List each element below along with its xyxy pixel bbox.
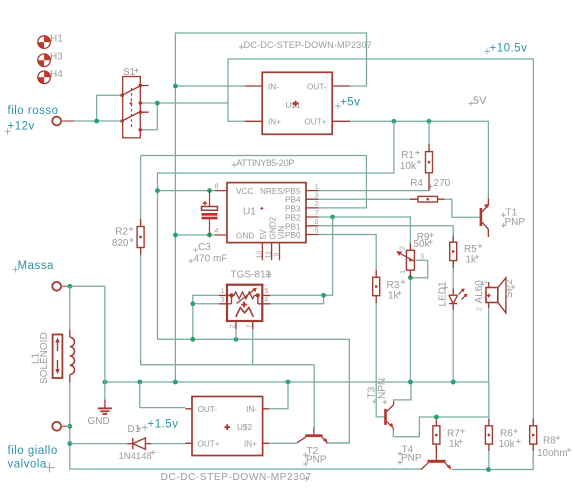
label D1: [128, 424, 142, 435]
svg-text:Massa: Massa: [18, 260, 54, 272]
svg-text:IN-: IN-: [268, 82, 279, 91]
solenoid L1: [31, 330, 75, 384]
wire R5 bottom to LED1: [452, 261, 454, 292]
microcontroller U1 ATTINY85: [215, 182, 319, 261]
pad Massa: [52, 282, 66, 291]
gas sensor TGS-813: [219, 285, 270, 329]
wire GND row pin4: [175, 234, 215, 236]
node switch output junction: [155, 101, 160, 106]
svg-text:3: 3: [221, 295, 225, 304]
wire LED1 cathode to GND bus: [452, 305, 454, 382]
svg-text:5V: 5V: [259, 229, 268, 240]
svg-text:4: 4: [264, 295, 268, 304]
svg-text:7: 7: [315, 208, 319, 217]
node VCC junction: [155, 188, 160, 193]
svg-text:U$2: U$2: [237, 423, 252, 432]
wire switch out2 loop: [142, 103, 158, 130]
node bottom right junction: [486, 467, 491, 472]
svg-text:R4: R4: [410, 178, 423, 189]
svg-text:+10.5v: +10.5v: [490, 42, 528, 54]
resistor R2: [112, 227, 144, 249]
svg-text:1N4148: 1N4148: [119, 451, 152, 462]
resistor R4: [410, 178, 451, 202]
svg-text:PB4: PB4: [285, 196, 301, 205]
wire TGS pin4 loop: [270, 295, 323, 304]
svg-text:OUT+: OUT+: [304, 118, 326, 127]
wire R6 bottom lead: [488, 444, 490, 469]
svg-text:T3: T3: [367, 386, 378, 398]
wire node to switch pole1: [97, 95, 122, 121]
svg-text:7: 7: [244, 325, 253, 329]
svg-text:OUT+: OUT+: [198, 440, 220, 449]
svg-text:8: 8: [215, 182, 219, 191]
svg-text:R8: R8: [543, 436, 556, 447]
svg-text:PB1: PB1: [285, 222, 301, 231]
wire TGS bottom left pin drop: [235, 329, 237, 339]
svg-text:IN+: IN+: [268, 118, 281, 127]
wire T3 emitter route to R7 top line and R6 top: [393, 417, 489, 437]
resistor R3: [373, 277, 400, 301]
resistor R5: [450, 242, 478, 265]
wire U$2 OUT- drop from GND bus: [140, 382, 186, 408]
svg-text:PB2: PB2: [285, 214, 301, 223]
node heater bus junction a: [190, 337, 195, 342]
svg-text:H1: H1: [50, 34, 63, 45]
svg-text:820: 820: [112, 238, 129, 249]
svg-text:OUT-: OUT-: [307, 82, 327, 91]
svg-text:U1: U1: [243, 207, 256, 218]
svg-text:PNP: PNP: [306, 454, 327, 465]
svg-text:2: 2: [398, 246, 407, 250]
node TGS pins 4/5 junction: [321, 293, 326, 298]
wire PB2 row to R9: [319, 217, 411, 250]
svg-text:IN-: IN-: [246, 405, 257, 414]
svg-text:filo rosso: filo rosso: [8, 105, 59, 117]
svg-text:270: 270: [434, 178, 451, 189]
pad filo giallo valvola: [52, 422, 66, 431]
svg-text:R2: R2: [115, 227, 128, 238]
label 1N4148: [119, 450, 156, 462]
potentiometer R9: [396, 232, 430, 274]
transistor T2: [297, 427, 328, 443]
label SP2 rotated: [474, 279, 515, 304]
dc-dc converter U$2: [185, 397, 269, 456]
net label valvola: [8, 459, 55, 473]
svg-text:+5v: +5v: [340, 97, 360, 109]
wire PB0 row to R3: [319, 235, 377, 278]
speaker SP2: [474, 278, 506, 313]
svg-text:GND2: GND2: [268, 216, 277, 239]
node TGS pin13 junction: [190, 301, 195, 306]
svg-text:1k: 1k: [449, 439, 461, 450]
node GND row left junction: [173, 233, 178, 238]
wire valve pad stub: [64, 425, 70, 427]
svg-text:2: 2: [228, 325, 237, 329]
svg-text:GND: GND: [236, 232, 254, 241]
svg-text:50k: 50k: [413, 239, 430, 250]
dc-dc converter U$1: [245, 72, 350, 134]
svg-text:1k: 1k: [388, 291, 400, 302]
wire D1 cathode to U$2 OUT+: [147, 443, 185, 445]
wire TGS pin5: [270, 294, 323, 296]
svg-text:OUT-: OUT-: [198, 405, 218, 414]
resistor R7: [433, 426, 461, 450]
resistor R8: [530, 426, 568, 459]
label T3 NPN rotated: [367, 378, 389, 399]
wire TGS bottom right pin drop: [252, 329, 254, 365]
wire GND bus: [105, 303, 489, 425]
wire NRES row to R1 bottom: [319, 173, 430, 191]
wire +5v row from OUT+ to T1 emitter riser: [350, 121, 488, 198]
svg-text:5: 5: [315, 226, 319, 235]
svg-text:3: 3: [315, 190, 319, 199]
label DC-DC top section name: [239, 40, 372, 50]
diode D1 1N4148: [133, 438, 146, 449]
label T4 PNP: [398, 444, 422, 465]
wire OUT- loop over box to GND rail V1: [175, 33, 366, 382]
wire R1 top lead: [428, 121, 430, 151]
svg-text:TGS-813: TGS-813: [231, 269, 272, 280]
wire solenoid bottom to valve pad and bottom run: [70, 383, 421, 470]
wire U$2 IN+ to T2 collector: [269, 442, 296, 444]
wire PB3 net: R2 top run: [141, 156, 367, 208]
svg-text:R6: R6: [500, 429, 513, 440]
node IN- junction: [173, 84, 178, 89]
transistor T3: [384, 402, 394, 431]
svg-text:H3: H3: [50, 52, 63, 63]
svg-text:+12v: +12v: [8, 121, 35, 133]
svg-text:10k: 10k: [400, 161, 417, 172]
label T2 PNP: [303, 446, 327, 467]
svg-text:ATTINY85-20P: ATTINY85-20P: [236, 158, 294, 168]
ground symbol GND: [88, 400, 112, 427]
svg-text:PB0: PB0: [285, 231, 301, 240]
wire R2 line down to T2 base line and TGS electrode: [141, 156, 315, 428]
svg-text:PB3: PB3: [285, 204, 301, 213]
wire Massa pad to GND symbol column: [64, 286, 105, 400]
hole H4: [37, 70, 51, 84]
wire TGS sense riser from pins 4/5 up to PB2: [324, 217, 333, 295]
hole H3: [37, 53, 51, 67]
wire bottom right: T4 emitter to R8 bottom: [452, 444, 533, 469]
wire U$2 IN- riser to GND bus: [269, 382, 288, 409]
wire R9 bottom to GND bus: [409, 270, 411, 382]
transistor T4: [421, 444, 452, 470]
svg-text:PNP: PNP: [505, 217, 526, 228]
node valve pad junction: [67, 424, 72, 429]
wire R9 wiper loop: [410, 260, 427, 278]
svg-text:1k: 1k: [466, 255, 478, 266]
svg-text:+1.5v: +1.5v: [148, 418, 179, 430]
svg-text:GND: GND: [88, 416, 110, 427]
node C3 top junction: [207, 188, 212, 193]
node GND bus junctions: [103, 380, 108, 385]
net label +5v: [335, 97, 360, 109]
svg-text:10: 10: [254, 251, 263, 259]
svg-text:5V: 5V: [473, 95, 487, 107]
svg-text:SOLENOID: SOLENOID: [39, 332, 50, 384]
wire R3 bottom to T3 base: [376, 296, 384, 417]
node C3 bottom junction: [207, 233, 212, 238]
wire +5v feed: down, left, down past VCC to heater bus and T2 emitter: [158, 121, 394, 443]
svg-text:H4: H4: [50, 69, 63, 80]
svg-text:C3: C3: [198, 242, 211, 253]
wire D1 anode run: [70, 443, 133, 445]
wire +10.5v net: IN+ riser, top run, right edge drop to R8: [228, 59, 533, 425]
net label +12v: [5, 121, 35, 135]
node heater bus junction b: [234, 337, 239, 342]
svg-text:AL60: AL60: [474, 280, 485, 304]
svg-text:3: 3: [420, 252, 424, 261]
svg-text:10ohm: 10ohm: [537, 448, 568, 459]
label DC-DC bottom section name: [161, 472, 312, 483]
node R9 bottom junction: [408, 275, 413, 280]
svg-text:R3: R3: [387, 280, 400, 291]
resistor R1: [400, 150, 433, 173]
hole H1: [37, 35, 51, 49]
wire PB1 row to R5 top: [319, 226, 454, 242]
svg-text:VCC: VCC: [236, 187, 253, 196]
wire PB4 row to R4: [319, 198, 419, 200]
svg-text:6: 6: [315, 217, 319, 226]
resistor R6: [485, 426, 515, 450]
net label +1.5v: [142, 418, 178, 430]
svg-text:VIN: VIN: [277, 226, 286, 240]
svg-text:R7: R7: [447, 429, 460, 440]
net label +10.5v: [484, 42, 527, 54]
wire IN- tap: [175, 85, 244, 87]
wire switch out1 to 12v rail: [142, 102, 229, 104]
net label Massa: [13, 260, 54, 273]
node PB2 junction: [330, 215, 335, 220]
svg-text:NPN: NPN: [377, 378, 388, 399]
wire T3 collector staircase to GND bus: [394, 382, 411, 402]
transistor T1: [480, 199, 490, 238]
svg-text:DC-DC-STEP-DOWN-MP2307: DC-DC-STEP-DOWN-MP2307: [244, 40, 372, 50]
svg-text:R5: R5: [464, 244, 477, 255]
wire T2 emitter run (short): [327, 442, 349, 444]
node R7 top junction: [434, 415, 439, 420]
red component lead stubs: [128, 144, 534, 452]
capacitor C3: [194, 191, 228, 265]
svg-text:4: 4: [215, 226, 219, 235]
svg-text:470 mF: 470 mF: [194, 253, 228, 264]
LED1: [438, 281, 468, 306]
svg-text:S1: S1: [123, 67, 136, 78]
svg-text:1: 1: [398, 270, 407, 274]
svg-text:LED1: LED1: [438, 281, 449, 306]
label origin crosses: [129, 68, 571, 452]
svg-text:DC-DC-STEP-DOWN-MP2307: DC-DC-STEP-DOWN-MP2307: [161, 472, 312, 483]
wire R4 to T1 base: [445, 199, 480, 217]
label T1 PNP: [501, 207, 525, 228]
svg-text:10k: 10k: [499, 439, 516, 450]
svg-text:IN+: IN+: [244, 440, 257, 449]
svg-text:PNP: PNP: [401, 453, 422, 464]
svg-text:2: 2: [315, 199, 319, 208]
svg-text:R1: R1: [401, 150, 414, 161]
svg-text:filo giallo: filo giallo: [8, 445, 58, 457]
svg-text:2: 2: [474, 307, 483, 311]
node switch input junction: [94, 119, 99, 124]
label 5V rail gray: [469, 95, 488, 107]
label TGS-813 name: [231, 269, 272, 280]
node D1 branch junction: [67, 441, 72, 446]
pad filo rosso +12v: [52, 117, 74, 126]
node +5v junction a: [392, 119, 397, 124]
wire +12v pad to switch node: [64, 120, 97, 122]
svg-text:U$1: U$1: [286, 101, 301, 110]
svg-text:9: 9: [272, 253, 281, 257]
switch S1: [120, 77, 148, 138]
wire node to switch pole2: [97, 120, 122, 122]
svg-text:NRES/PB5: NRES/PB5: [260, 187, 301, 196]
wire TGS pins 1,3 tie and drop to heater bus: [193, 295, 219, 339]
wire VCC row: [158, 190, 216, 192]
svg-text:valvola: valvola: [8, 459, 47, 471]
label ATTINY85-20P section name: [232, 158, 295, 168]
node +5v junction b: [427, 119, 432, 124]
wire solenoid top lead: [69, 286, 71, 330]
node Massa junction: [67, 284, 72, 289]
